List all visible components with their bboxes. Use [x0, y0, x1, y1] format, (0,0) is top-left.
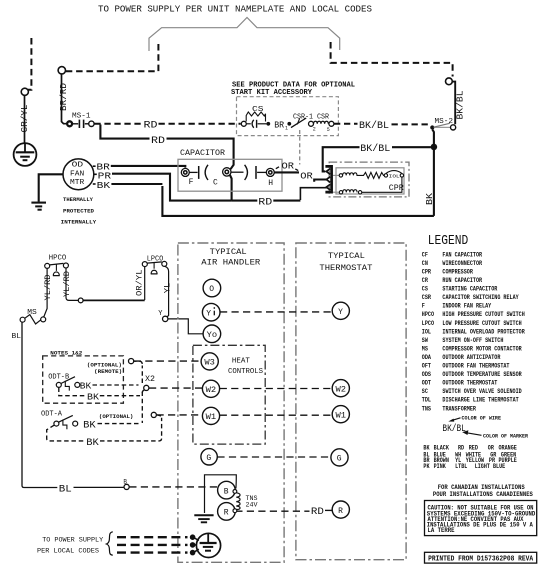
svg-text:DISCHARGE LINE THERMOSTAT: DISCHARGE LINE THERMOSTAT — [442, 397, 519, 404]
svg-text:W2: W2 — [206, 386, 217, 395]
svg-text:CSR: CSR — [422, 294, 432, 301]
svg-text:LPCO: LPCO — [422, 320, 435, 327]
svg-text:W2: W2 — [336, 385, 347, 394]
svg-text:INDOOR FAN RELAY: INDOOR FAN RELAY — [442, 303, 491, 310]
svg-text:OR: OR — [300, 170, 313, 181]
wire: W3 terminal to W3 dashed — [134, 360, 201, 362]
svg-text:POUR INSTALLATIONS CANADIENNES: POUR INSTALLATIONS CANADIENNES — [433, 491, 533, 498]
svg-text:F: F — [189, 178, 194, 187]
svg-text:SWITCH OVER VALVE SOLENOID: SWITCH OVER VALVE SOLENOID — [442, 388, 522, 395]
svg-text:COMPRESSOR: COMPRESSOR — [442, 269, 473, 276]
svg-text:PER LOCAL CODES: PER LOCAL CODES — [37, 548, 99, 556]
terminal O — [203, 279, 221, 297]
wire: R to RD dashed — [235, 510, 309, 512]
svg-text:PINK: PINK — [434, 463, 447, 470]
svg-text:O: O — [209, 285, 214, 294]
svg-text:TYPICAL: TYPICAL — [210, 247, 247, 257]
wire: BK horizontal to motor — [162, 186, 434, 216]
svg-text:RUN CAPACITOR: RUN CAPACITOR — [442, 277, 482, 284]
terminal B — [218, 481, 236, 499]
svg-text:PRINTED FROM D157362P08 REVA: PRINTED FROM D157362P08 REVA — [428, 555, 534, 563]
svg-text:W1: W1 — [206, 413, 217, 422]
svg-text:B: B — [224, 487, 229, 496]
svg-text:COLOR OF WIRE: COLOR OF WIRE — [462, 414, 502, 421]
svg-text:CS: CS — [422, 286, 428, 293]
svg-text:24V: 24V — [246, 502, 258, 509]
svg-text:OR/YL: OR/YL — [135, 270, 145, 297]
svg-text:GR/YL: GR/YL — [20, 105, 30, 133]
run winding with resistor — [339, 174, 342, 177]
svg-text:ODA: ODA — [422, 354, 432, 361]
svg-text:RD: RD — [311, 507, 324, 518]
svg-text:TRANSFORMER: TRANSFORMER — [442, 405, 476, 412]
wire: G to G dashed — [217, 456, 330, 458]
node: W1 field terminal — [151, 412, 156, 417]
transformer TNS 24V — [233, 490, 258, 513]
svg-text:BK/BL: BK/BL — [456, 91, 466, 120]
svg-text:BK/BL: BK/BL — [442, 423, 466, 435]
svg-text:CF: CF — [422, 251, 428, 258]
svg-text:YL: YL — [162, 283, 172, 294]
winding return — [362, 177, 402, 192]
svg-text:PROTECTED: PROTECTED — [63, 208, 95, 215]
svg-text:FOR CANADIAN INSTALLATIONS: FOR CANADIAN INSTALLATIONS — [438, 484, 525, 491]
wire: HPCO right down — [66, 268, 78, 300]
motor OD FAN MTR — [63, 159, 94, 190]
motor terminal stubs — [93, 165, 96, 167]
svg-text:BK: BK — [80, 381, 92, 392]
capacitor terminal H — [266, 168, 274, 176]
node: BK junction dot — [431, 144, 438, 151]
svg-text:SW: SW — [422, 337, 428, 344]
connector CN plug bar — [325, 166, 331, 192]
wire: RD solid MS-1 to capacitor C — [100, 125, 149, 139]
svg-text:YL/RD: YL/RD — [43, 275, 53, 301]
terminal Yi — [202, 303, 220, 321]
svg-text:BK: BK — [83, 421, 96, 432]
svg-text:MTR: MTR — [70, 179, 85, 187]
svg-text:LEGEND: LEGEND — [428, 233, 469, 249]
svg-text:ODS: ODS — [422, 371, 432, 378]
svg-text:LIGHT BLUE: LIGHT BLUE — [475, 463, 506, 470]
capacitor terminal F — [181, 168, 189, 176]
wire: ODT-A left down and bottom BK — [47, 415, 162, 441]
ground G2 — [31, 203, 46, 210]
ground G3 — [194, 515, 213, 522]
ground G4 (circle earth) — [196, 533, 220, 557]
svg-text:CN: CN — [422, 260, 428, 267]
wire: LPCO right down to Y — [165, 266, 169, 317]
capacitor plates left — [189, 171, 197, 173]
svg-text:TNS: TNS — [422, 405, 432, 412]
caution box — [425, 501, 537, 536]
svg-text:ORANGE: ORANGE — [499, 444, 518, 451]
printed from box — [425, 552, 537, 563]
svg-text:F: F — [422, 303, 425, 310]
wire: BK/BL solid down from power terminal — [453, 82, 456, 125]
wire: BK/BL solid to CPR — [392, 146, 431, 148]
svg-text:Y: Y — [206, 309, 211, 318]
switch HPCO — [45, 255, 69, 276]
wire: power line 1 dashed — [117, 536, 188, 538]
thermostat terminal G — [331, 449, 348, 466]
svg-text:LTBL: LTBL — [455, 463, 468, 470]
power supply brace — [149, 18, 340, 52]
wire: Yi to Y dashed — [220, 311, 332, 313]
svg-text:TDL: TDL — [422, 397, 432, 404]
wire: X2 corner to vertical — [142, 390, 144, 393]
svg-text:CAPACITOR SWITCHING RELAY: CAPACITOR SWITCHING RELAY — [442, 294, 519, 301]
wire: W1 to W1 dashed — [220, 414, 332, 416]
color code table — [423, 444, 517, 469]
svg-text:C: C — [213, 178, 218, 187]
svg-text:RD: RD — [144, 120, 158, 132]
node: BK/BL terminal circle — [446, 78, 453, 85]
wire: OR from H — [274, 171, 299, 173]
legend table — [422, 251, 525, 412]
svg-text:RED: RED — [469, 444, 479, 451]
wire: HPCO left down to MS — [44, 268, 47, 317]
svg-text:G: G — [337, 455, 342, 464]
svg-text:HEAT: HEAT — [232, 357, 250, 365]
svg-text:R: R — [224, 509, 229, 518]
svg-text:BK: BK — [97, 180, 111, 191]
terminal W2 — [202, 380, 219, 397]
svg-text:PK: PK — [423, 463, 429, 470]
svg-text:(REMOTE): (REMOTE) — [94, 368, 122, 375]
svg-text:ODT: ODT — [422, 380, 432, 387]
switch LPCO — [142, 255, 167, 274]
terminal W1 — [202, 407, 219, 424]
svg-text:OUTDOOR THERMOSTAT: OUTDOOR THERMOSTAT — [442, 380, 497, 387]
svg-text:TO POWER SUPPLY: TO POWER SUPPLY — [42, 537, 103, 545]
wire: motor to ground — [39, 174, 63, 201]
svg-text:YL/RD: YL/RD — [62, 271, 72, 297]
terminal W3 — [201, 353, 218, 370]
wire: below C to RD run — [230, 175, 232, 201]
wire: ODT-A right BK dashed to X2 vertical — [98, 421, 143, 424]
wire: power line 2 dashed — [117, 544, 188, 546]
svg-text:FAN CAPACITOR: FAN CAPACITOR — [442, 251, 482, 258]
wire: power line 3 dashed — [117, 551, 188, 553]
wire: OR to CPR middle pin — [314, 180, 327, 182]
svg-text:W3: W3 — [204, 359, 215, 368]
wire: RD solid cont to C terminal — [167, 139, 234, 170]
wire: RD to CPR bottom pin — [300, 188, 327, 200]
node: GR/YL terminal circle — [21, 88, 28, 95]
svg-text:R: R — [338, 507, 343, 516]
wire: BK/BL cont corner down to CPR top pin — [323, 147, 360, 171]
thermostat terminal W1 — [332, 406, 349, 423]
wire: BK segment to right — [111, 183, 162, 185]
capacitor terminal C — [223, 168, 231, 176]
terminal G — [201, 449, 217, 465]
color of marker callout — [466, 433, 482, 436]
wire: W2 to W2 dashed — [220, 388, 332, 390]
svg-text:1: 1 — [285, 126, 288, 132]
svg-text:BL: BL — [59, 484, 72, 496]
thermostat box — [296, 243, 406, 560]
svg-text:5: 5 — [327, 127, 330, 133]
svg-text:NOTES 1&2: NOTES 1&2 — [50, 350, 83, 357]
svg-text:FAN: FAN — [70, 170, 84, 178]
svg-text:BK: BK — [86, 438, 99, 449]
capacitor CS — [241, 106, 266, 128]
capacitor box — [178, 159, 282, 191]
wire: right power feed dashed BK/BL — [331, 42, 453, 77]
svg-text:G: G — [206, 454, 211, 463]
terminal Yo — [203, 325, 221, 343]
wire: X2 to W2 dashed — [149, 387, 202, 389]
svg-text:INTERNALLY: INTERNALLY — [61, 219, 97, 226]
svg-text:IOL: IOL — [422, 328, 432, 335]
wire: B terminal to B dashed — [129, 486, 217, 488]
svg-text:INTERNAL OVERLOAD PROTECTOR: INTERNAL OVERLOAD PROTECTOR — [442, 328, 525, 335]
wire: PR to capacitor C — [112, 174, 232, 201]
svg-text:HPCO: HPCO — [422, 311, 435, 318]
svg-text:Yo: Yo — [207, 331, 218, 340]
svg-text:CR: CR — [422, 277, 428, 284]
compressor CPR outer box — [329, 162, 409, 197]
svg-text:BR/RD: BR/RD — [59, 83, 69, 111]
wire: Y to Yo — [168, 319, 203, 334]
wire: B to ground — [205, 475, 237, 513]
node: BR/RD terminal circle — [58, 67, 65, 74]
svg-text:BK: BK — [423, 444, 429, 451]
wire: BL down — [22, 322, 57, 487]
svg-text:IOL: IOL — [389, 173, 400, 179]
svg-text:BLACK: BLACK — [434, 444, 450, 451]
svg-text:RD: RD — [258, 196, 272, 208]
svg-text:BR: BR — [274, 120, 285, 130]
svg-text:HIGH PRESSURE CUTOUT SWITCH: HIGH PRESSURE CUTOUT SWITCH — [442, 311, 525, 318]
capacitor plates right — [245, 165, 248, 180]
wire: ODT-B left down BK line — [59, 388, 143, 422]
svg-text:HPCO: HPCO — [49, 255, 67, 263]
terminal R — [218, 503, 236, 521]
svg-text:CAPACITOR: CAPACITOR — [180, 149, 225, 158]
thermostat ODT-B — [48, 374, 80, 391]
svg-text:RD: RD — [458, 444, 464, 451]
svg-text:OUTDOOR ANTICIPATOR: OUTDOOR ANTICIPATOR — [442, 354, 500, 361]
svg-text:OR: OR — [488, 444, 494, 451]
contactor MS-2 — [430, 118, 456, 130]
notes box — [43, 356, 124, 403]
svg-text:OUTDOOR TEMPERATURE SENSOR: OUTDOOR TEMPERATURE SENSOR — [442, 371, 522, 378]
power line arrow tips — [190, 535, 199, 555]
thermostat terminal W2 — [332, 380, 349, 397]
start winding — [339, 191, 342, 194]
svg-text:W1: W1 — [336, 411, 347, 420]
svg-text:AIR HANDLER: AIR HANDLER — [201, 258, 260, 268]
wire: BR to capacitor F — [111, 166, 186, 168]
svg-text:OUTDOOR FAN THERMOSTAT: OUTDOOR FAN THERMOSTAT — [442, 363, 509, 370]
svg-text:THERMOSTAT: THERMOSTAT — [319, 263, 372, 273]
svg-text:CONTROLS: CONTROLS — [228, 368, 263, 376]
wire: optional dashed from CSR-1 down to OR — [299, 130, 301, 165]
svg-text:COLOR OF MARKER: COLOR OF MARKER — [483, 432, 528, 439]
wire: left power feed dashed BR/RD — [65, 44, 158, 71]
svg-text:X2: X2 — [145, 374, 155, 384]
svg-text:BL: BL — [12, 333, 22, 341]
thermostat ODT-A — [41, 411, 78, 430]
start kit dashed box — [237, 97, 339, 136]
wire: RD to R thermostat — [325, 509, 332, 511]
air handler box — [178, 243, 284, 562]
svg-text:START KIT ACCESSORY: START KIT ACCESSORY — [231, 89, 313, 97]
brace { — [106, 532, 112, 555]
wire: RD dashed MS-1 to start kit — [94, 123, 142, 125]
wire: GR/YL to ground — [24, 95, 26, 143]
thermostat terminal Y — [332, 302, 349, 319]
svg-text:STARTING CAPACITOR: STARTING CAPACITOR — [442, 286, 497, 293]
svg-text:BK/BL: BK/BL — [359, 120, 389, 132]
coil CSR — [314, 121, 329, 124]
connector pins (arrows) — [326, 169, 330, 190]
svg-text:WIRECONNECTOR: WIRECONNECTOR — [442, 260, 482, 267]
wire: BK vertical down — [433, 150, 435, 216]
svg-text:BK/BL: BK/BL — [360, 143, 390, 155]
wire: RD segment — [232, 200, 301, 202]
svg-text:BK: BK — [425, 192, 435, 205]
svg-text:CPR: CPR — [422, 269, 432, 276]
contactor MS aux — [20, 309, 46, 324]
svg-text:ODT-A: ODT-A — [41, 411, 63, 419]
svg-text:H: H — [268, 179, 273, 188]
svg-text:SC: SC — [422, 388, 428, 395]
svg-text:SYSTEM ON-OFF SWITCH: SYSTEM ON-OFF SWITCH — [442, 337, 503, 344]
wire: BL cont — [74, 486, 124, 488]
node: wire connector — [78, 298, 83, 303]
svg-text:OR: OR — [282, 160, 295, 171]
wire: RD dashed cont — [159, 123, 241, 125]
svg-text:MS: MS — [422, 345, 428, 352]
wire: connector to LPCO left — [83, 299, 145, 301]
svg-text:LOW PRESSURE CUTOUT SWITCH: LOW PRESSURE CUTOUT SWITCH — [442, 320, 522, 327]
svg-text:(OPTIONAL): (OPTIONAL) — [99, 413, 133, 420]
thermostat terminal R — [332, 501, 349, 518]
wire: W1 terminal to W1 dashed — [157, 414, 203, 416]
wire: LPCO left vertical — [144, 267, 146, 300]
svg-text:COMPRESSOR MOTOR CONTACTOR: COMPRESSOR MOTOR CONTACTOR — [442, 345, 522, 352]
wire: MS-2 down to junction — [432, 130, 434, 147]
node: junction dot 2 — [287, 122, 291, 126]
svg-text:2: 2 — [313, 127, 316, 133]
svg-text:OD: OD — [72, 162, 84, 170]
wire: BK/BL dashed CSR to MS-2 — [334, 123, 358, 125]
wire: GR/YL ground feed dashed — [28, 38, 31, 90]
compressor inner housing — [336, 168, 404, 194]
resistor BR1 bleed over CS — [246, 112, 265, 122]
svg-text:TYPICAL: TYPICAL — [328, 251, 365, 261]
svg-text:CPR: CPR — [389, 183, 404, 193]
svg-text:TO POWER SUPPLY PER UNIT NAMEP: TO POWER SUPPLY PER UNIT NAMEPLATE AND L… — [98, 4, 372, 15]
svg-text:LA TERRE: LA TERRE — [428, 527, 455, 534]
svg-text:RD: RD — [151, 135, 165, 147]
wire: ODT-B to W3 terminal dashed — [93, 361, 143, 385]
wire: BR/RD down to MS-1 — [62, 73, 68, 123]
node: W3 field terminal — [129, 359, 134, 364]
svg-text:BK: BK — [87, 392, 99, 403]
svg-text:Y: Y — [338, 308, 343, 317]
contactor MS-1 — [67, 113, 94, 129]
label OR optional — [276, 167, 279, 169]
winding leads — [333, 174, 339, 176]
heat controls box — [193, 345, 265, 444]
wire: BK/BL dashed cont — [392, 123, 429, 125]
node: junction dot — [266, 122, 270, 126]
svg-text:THERMALLY: THERMALLY — [63, 196, 93, 203]
ground G1 (circle earth) — [14, 143, 37, 166]
svg-text:MS-1: MS-1 — [72, 113, 91, 121]
svg-text:OFT: OFT — [422, 363, 432, 370]
